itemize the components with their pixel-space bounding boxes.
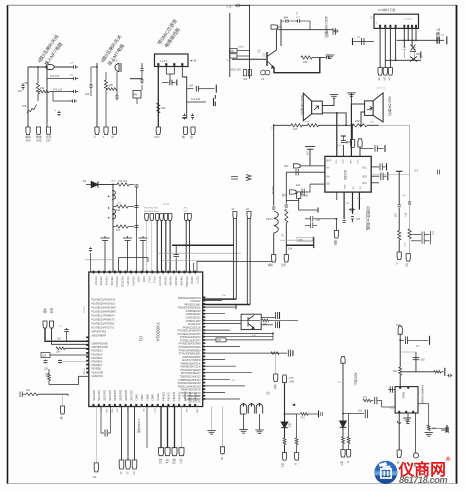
watermark logo ball bbox=[374, 461, 397, 484]
svg-text:COM2: COM2 bbox=[147, 393, 149, 400]
wire bbox=[65, 347, 89, 349]
svg-text:®: ® bbox=[446, 456, 451, 463]
connector J7 bbox=[156, 127, 160, 135]
svg-text:AIN: AIN bbox=[284, 165, 288, 168]
wire to J55 bbox=[352, 125, 354, 139]
ground bbox=[326, 55, 334, 59]
wire bbox=[241, 5, 250, 7]
capacitor C55 bbox=[135, 184, 139, 188]
connector J6 bbox=[112, 127, 116, 135]
diode D2 zener bbox=[410, 57, 417, 62]
wire bbox=[47, 78, 72, 80]
svg-text:P12/SEG19/AN3/CMP2: P12/SEG19/AN3/CMP2 bbox=[92, 307, 117, 310]
svg-text:地: 地 bbox=[60, 416, 63, 420]
wire P1-1 bbox=[379, 28, 381, 67]
wire bias bbox=[141, 63, 143, 66]
capacitor C44 bbox=[349, 208, 355, 211]
connector J3 bbox=[46, 127, 50, 135]
svg-text:1W: 1W bbox=[142, 409, 144, 412]
connector J51 bbox=[398, 326, 402, 334]
wire bbox=[399, 334, 401, 367]
svg-text:SPK: SPK bbox=[26, 139, 31, 143]
wire chain B bbox=[285, 200, 287, 203]
wire chain C bbox=[398, 171, 400, 204]
connector J43 bbox=[172, 448, 177, 456]
transistor Q1 bbox=[267, 50, 277, 68]
capacitor C26 bbox=[333, 28, 336, 35]
svg-text:P42/KS2: P42/KS2 bbox=[174, 391, 176, 401]
wire J32 stem b bbox=[235, 219, 237, 300]
wire bbox=[284, 445, 286, 453]
wire bbox=[27, 67, 29, 127]
capacitor C46 bbox=[285, 205, 288, 208]
svg-text:PWM2/KS8/T0CLK: PWM2/KS8/T0CLK bbox=[181, 363, 201, 365]
wire bbox=[50, 354, 89, 356]
svg-text:VDD/VCC33: VDD/VCC33 bbox=[188, 402, 201, 404]
svg-text:EAM8002VAV0: EAM8002VAV0 bbox=[421, 385, 425, 404]
svg-text:4Ω0.5W喇叭: 4Ω0.5W喇叭 bbox=[388, 96, 393, 117]
svg-text:104: 104 bbox=[346, 141, 351, 144]
connector J19 bbox=[297, 192, 301, 199]
IC U3 box bbox=[395, 387, 418, 413]
svg-text:P13/SEG18/AN4/CMP3: P13/SEG18/AN4/CMP3 bbox=[92, 311, 117, 314]
wire bbox=[174, 407, 176, 448]
svg-text:开关: 开关 bbox=[165, 459, 169, 465]
junction bbox=[112, 184, 114, 186]
svg-text:P74/SEG9/INT2/AN8: P74/SEG9/INT2/AN8 bbox=[179, 343, 202, 346]
svg-text:103: 103 bbox=[316, 219, 321, 222]
capacitor C76 bbox=[390, 386, 392, 392]
capacitor C28 gray bbox=[413, 48, 416, 59]
svg-text:8002: 8002 bbox=[402, 392, 406, 399]
wire gray net2 bbox=[162, 259, 234, 261]
IC U2 box bbox=[325, 156, 371, 192]
wire right pin8 bbox=[205, 319, 260, 321]
wire MCU top pin bbox=[151, 220, 153, 272]
junction bbox=[46, 66, 48, 68]
resistor R12 bbox=[408, 229, 411, 239]
wire bbox=[285, 223, 287, 255]
wire bbox=[129, 184, 134, 186]
wire thick net2 bbox=[286, 244, 313, 246]
svg-text:+: + bbox=[60, 325, 62, 329]
junction bbox=[345, 124, 347, 126]
svg-text:473: 473 bbox=[116, 229, 121, 232]
IC U1 top pin labels bbox=[94, 276, 198, 288]
wire bbox=[49, 384, 79, 386]
wire right pin28 bbox=[205, 385, 245, 387]
wire bbox=[166, 73, 174, 75]
wire U2 top pin1 bbox=[336, 113, 338, 156]
svg-text:P17/SEG14/INT1/TX1: P17/SEG14/INT1/TX1 bbox=[92, 328, 115, 330]
microphone MIC1 bbox=[115, 63, 121, 72]
svg-text:SEG0/P80: SEG0/P80 bbox=[94, 389, 96, 401]
svg-text:1S4: 1S4 bbox=[116, 209, 121, 212]
wire bbox=[141, 73, 143, 79]
wire right pin22 bbox=[205, 365, 236, 367]
svg-text:P64/SDA/AN3/SEG18: P64/SDA/AN3/SEG18 bbox=[178, 382, 202, 385]
resistor R19 bbox=[26, 393, 38, 396]
resistor R14 bbox=[116, 205, 128, 208]
connector J37 bbox=[94, 463, 98, 472]
svg-text:SEG7/P87: SEG7/P87 bbox=[131, 389, 133, 401]
wire right pin2 bbox=[205, 300, 222, 302]
inductor L3 bbox=[112, 191, 115, 200]
svg-text:P33/SEG1: P33/SEG1 bbox=[115, 276, 117, 288]
ground Q3 bbox=[239, 430, 247, 434]
wire bbox=[342, 137, 344, 141]
wire U2 bottom2 bbox=[352, 192, 354, 214]
terminal bar3 bbox=[446, 425, 448, 432]
wire bbox=[284, 383, 286, 423]
svg-text:104: 104 bbox=[288, 248, 293, 251]
svg-text:CMP1/P51/AN6: CMP1/P51/AN6 bbox=[92, 346, 109, 349]
wire bbox=[408, 339, 428, 341]
transistor Q4 bbox=[248, 404, 254, 414]
resistor R2 bbox=[40, 90, 49, 93]
capacitor C54b bbox=[411, 237, 431, 244]
wire bbox=[384, 175, 387, 177]
wire chain B up bbox=[285, 172, 287, 200]
svg-text:VO1: VO1 bbox=[362, 167, 367, 169]
svg-text:YX8201A: YX8201A bbox=[156, 322, 161, 342]
svg-text:三九九九: 三九九九 bbox=[403, 17, 413, 21]
capacitor C17 bbox=[235, 4, 241, 7]
wire thick MCU right1 bbox=[203, 298, 236, 300]
wire MCU top pin bbox=[165, 220, 167, 272]
wire bbox=[175, 246, 177, 254]
capacitor C67 bar bbox=[279, 312, 281, 319]
wire P1-2 bbox=[384, 28, 386, 67]
capacitor C47 bbox=[305, 216, 317, 222]
svg-text:861718.com: 861718.com bbox=[399, 475, 447, 485]
wire bbox=[348, 414, 350, 437]
svg-text:P77/KS5/PWM1/BZ1: P77/KS5/PWM1/BZ1 bbox=[179, 354, 201, 356]
wire bbox=[79, 375, 89, 377]
capacitor C15 bbox=[183, 114, 186, 120]
wire U2 VDD bbox=[371, 175, 379, 177]
wire bbox=[301, 20, 310, 22]
wire bbox=[286, 199, 298, 201]
svg-text:P10/SEG21/AN1/KS14: P10/SEG21/AN1/KS14 bbox=[92, 299, 116, 302]
wire right pin6 bbox=[205, 313, 225, 315]
capacitor C49 bar bbox=[313, 237, 315, 248]
wire bbox=[160, 407, 162, 448]
LED D4 bbox=[281, 422, 288, 428]
capacitor C18 box bbox=[230, 49, 238, 53]
capacitor C40 bar bbox=[387, 172, 389, 181]
svg-text:VDD: VDD bbox=[349, 160, 351, 165]
connector J42 bbox=[165, 448, 170, 456]
wire U3 out3 bbox=[415, 413, 417, 453]
wire vertical VCC bbox=[112, 185, 114, 273]
wire U6 pin4 bbox=[181, 66, 183, 77]
capacitor C5 bbox=[70, 99, 77, 102]
wire U6 pin4b bbox=[182, 77, 187, 118]
capacitor C61 bbox=[173, 254, 179, 258]
wire U6 pin3 bbox=[173, 66, 175, 74]
svg-text:P63/VLCD2/C1N: P63/VLCD2/C1N bbox=[183, 327, 201, 329]
wire gray net3 bbox=[85, 259, 113, 261]
connector J18 bbox=[284, 255, 288, 263]
junction dot bbox=[108, 196, 109, 197]
wire U6 pin2 bbox=[165, 66, 167, 74]
capacitor C57 bbox=[135, 225, 139, 229]
svg-text:IN-: IN- bbox=[327, 167, 330, 169]
resistor R5 bbox=[108, 88, 117, 91]
svg-text:P37/KS7: P37/KS7 bbox=[94, 276, 96, 286]
svg-text:10 11 12: 10 11 12 bbox=[377, 88, 386, 90]
capacitor C69 bbox=[105, 430, 107, 437]
wire SPK2 top bbox=[351, 103, 364, 105]
wire bbox=[272, 333, 274, 340]
svg-text:104 104: 104 104 bbox=[271, 186, 273, 195]
connector J27 bbox=[160, 214, 164, 221]
wire U3 out2 bbox=[407, 413, 409, 420]
svg-text:喇叭: 喇叭 bbox=[268, 263, 274, 267]
resistor R11 bbox=[398, 231, 401, 241]
svg-text:1/4W: 1/4W bbox=[289, 381, 295, 384]
wire bbox=[406, 413, 408, 418]
svg-text:VDD: VDD bbox=[396, 324, 401, 327]
svg-text:CMP0/P50/AN5: CMP0/P50/AN5 bbox=[92, 343, 109, 346]
LED D5 bbox=[340, 421, 347, 427]
capacitor C2 bbox=[21, 83, 24, 90]
wire bbox=[398, 208, 400, 231]
wire bbox=[281, 20, 284, 22]
svg-text:104: 104 bbox=[189, 85, 194, 88]
wire bbox=[296, 414, 298, 438]
resistor R9 bbox=[352, 124, 367, 127]
wire bbox=[127, 407, 129, 461]
wire bbox=[101, 407, 104, 434]
wire bus top pins bbox=[119, 257, 149, 259]
svg-text:电源: 电源 bbox=[43, 308, 47, 314]
transistor Q2 box bbox=[241, 314, 261, 329]
svg-text:VPP/RST/P02: VPP/RST/P02 bbox=[92, 332, 107, 334]
capacitor C21 pair bbox=[244, 70, 252, 76]
junction bbox=[407, 39, 409, 41]
wire bbox=[297, 413, 300, 415]
connector J35 bbox=[50, 321, 54, 328]
svg-text:RST: RST bbox=[153, 409, 155, 414]
svg-text:COM1/SEG21: COM1/SEG21 bbox=[186, 314, 202, 316]
connector J39 bbox=[126, 460, 131, 469]
wire bbox=[243, 414, 245, 430]
wire gray bbox=[222, 407, 224, 447]
svg-text:SD: SD bbox=[360, 186, 362, 189]
connector J45 bbox=[220, 447, 224, 454]
svg-text:P61/SEG1/AN1: P61/SEG1/AN1 bbox=[184, 303, 201, 306]
svg-text:K0: K0 bbox=[93, 475, 97, 479]
wire bbox=[398, 240, 400, 252]
wire bus AMP4 bbox=[379, 124, 410, 126]
wire bbox=[193, 263, 195, 272]
connector J47 bbox=[282, 453, 286, 461]
svg-text:VO1/DAC: VO1/DAC bbox=[190, 300, 201, 303]
wire U6 pin1 bbox=[157, 66, 159, 127]
svg-text:VDD: VDD bbox=[111, 181, 116, 183]
IC U1 bottom pin labels bbox=[94, 389, 198, 401]
resistor R6 bbox=[157, 103, 160, 113]
wire bbox=[400, 371, 434, 373]
wire P1-7 bbox=[411, 28, 413, 47]
transistor Q3 bbox=[240, 404, 246, 414]
wire bbox=[90, 67, 92, 82]
capacitor C73 gray bbox=[415, 352, 417, 372]
wire bbox=[309, 21, 311, 30]
capacitor C19 small bbox=[258, 49, 265, 57]
IC U1 left pin names2 bbox=[92, 343, 109, 378]
svg-text:静音: 静音 bbox=[282, 193, 288, 197]
svg-text:1uF 104: 1uF 104 bbox=[50, 75, 60, 78]
wire bbox=[67, 394, 69, 396]
wire gray bbox=[400, 351, 416, 353]
capacitor C83 small bbox=[321, 412, 323, 416]
crystal X3 bbox=[246, 175, 251, 181]
svg-text:SD: SD bbox=[327, 184, 331, 186]
resistor R20 bbox=[262, 319, 269, 321]
svg-text:VS: VS bbox=[377, 77, 381, 81]
connector J10 bbox=[271, 25, 278, 29]
svg-text:P76/KS4/PWM0/BZ0: P76/KS4/PWM0/BZ0 bbox=[179, 350, 201, 352]
wire gray to J54 bbox=[275, 353, 277, 374]
svg-text:T1/BZB/SEG15/KS13: T1/BZB/SEG15/KS13 bbox=[178, 380, 201, 382]
svg-text:104: 104 bbox=[85, 92, 90, 96]
capacitor C34 bbox=[341, 140, 346, 143]
resistor R3 diagonal bbox=[27, 105, 37, 114]
wire SPK1 top bbox=[322, 99, 334, 106]
IC U1 bottom-right inside labels bbox=[188, 395, 201, 404]
wire bbox=[296, 184, 310, 192]
capacitor C32 bar bbox=[352, 38, 354, 45]
capacitor C24 bbox=[296, 19, 301, 22]
svg-text:3.3: 3.3 bbox=[414, 169, 418, 173]
svg-text:330: 330 bbox=[161, 106, 166, 110]
wire bbox=[237, 55, 250, 57]
wire chain D bbox=[409, 125, 411, 201]
capacitor C68 bar bbox=[279, 321, 281, 328]
capacitor C34 bar bbox=[341, 135, 346, 137]
border frame bottom bbox=[8, 483, 457, 485]
wire bbox=[400, 339, 404, 341]
terminal bar bbox=[317, 208, 319, 213]
svg-text:NC: NC bbox=[353, 186, 355, 190]
connector J5 bbox=[104, 127, 108, 135]
junction bbox=[66, 340, 68, 342]
connector J29 bbox=[168, 214, 172, 221]
wire bbox=[106, 88, 108, 90]
junction bbox=[284, 413, 286, 415]
wire gray net1 bbox=[157, 252, 241, 254]
capacitor C4 bbox=[71, 90, 78, 93]
capacitor C31 bar bbox=[446, 36, 448, 44]
connector J32 bbox=[233, 212, 237, 219]
svg-text:P54/SEG5: P54/SEG5 bbox=[92, 358, 104, 360]
svg-text:SEG2/P82: SEG2/P82 bbox=[105, 389, 107, 401]
junction bbox=[411, 39, 413, 41]
svg-text:P36/KS6: P36/KS6 bbox=[99, 276, 101, 286]
transistor Q5 bbox=[256, 404, 262, 414]
svg-text:BO0 BO1 SEG: BO0 BO1 SEG bbox=[144, 211, 159, 213]
capacitor C10 bbox=[140, 78, 143, 84]
capacitor C38 bbox=[302, 189, 304, 196]
component Y1 box bbox=[41, 353, 50, 358]
resistor R25 bbox=[342, 437, 345, 444]
inductor L4 bbox=[112, 209, 116, 219]
wire bbox=[66, 333, 68, 341]
wire bbox=[199, 88, 215, 90]
wire Q5 bbox=[259, 403, 261, 407]
resistor R17 bbox=[48, 374, 51, 381]
wire bbox=[105, 90, 107, 127]
wire bbox=[172, 82, 175, 84]
wire bbox=[259, 414, 261, 430]
svg-text:P31/INT1: P31/INT1 bbox=[126, 276, 128, 286]
svg-text:VLCD1/C1P: VLCD1/C1P bbox=[188, 324, 201, 326]
svg-text:P70/SEG13/KS0/INT0: P70/SEG13/KS0/INT0 bbox=[177, 331, 201, 333]
connector J54 bbox=[274, 374, 278, 382]
svg-text:VSS5: VSS5 bbox=[142, 276, 144, 283]
IC U1 left pins bbox=[86, 336, 89, 373]
wire bus AMP2 bbox=[319, 124, 353, 126]
wire bbox=[261, 317, 275, 319]
svg-text:COM1: COM1 bbox=[142, 393, 144, 400]
svg-text:VDD1/VCC: VDD1/VCC bbox=[92, 376, 104, 378]
capacitor C48 bbox=[305, 223, 317, 229]
IC U1 below-edge pin labels bbox=[100, 409, 198, 414]
border frame right bbox=[456, 5, 458, 484]
wire bbox=[53, 100, 71, 102]
junction bbox=[415, 39, 417, 41]
svg-text:VLCD2: VLCD2 bbox=[158, 393, 160, 401]
wire gray net bbox=[371, 173, 409, 175]
connector J50b bbox=[341, 357, 345, 364]
wire bbox=[362, 400, 363, 402]
connector J49 bbox=[341, 450, 345, 458]
wire J33 stem b bbox=[249, 219, 251, 305]
wire crystal left rail bbox=[229, 13, 231, 77]
wire bus AMP bbox=[274, 124, 291, 126]
svg-text:4Ω0.5W喇叭: 4Ω0.5W喇叭 bbox=[300, 95, 305, 116]
svg-text:LED: LED bbox=[116, 409, 118, 414]
capacitor C35 bar bbox=[384, 145, 386, 152]
capacitor C14 bbox=[214, 95, 216, 106]
svg-text:RST/VPP: RST/VPP bbox=[158, 276, 160, 286]
inductor L2 bbox=[274, 211, 279, 233]
wire right pin4 bbox=[205, 306, 235, 308]
wire bbox=[169, 74, 171, 83]
svg-text:P26/AN6: P26/AN6 bbox=[169, 276, 172, 286]
wire U2 IN- bbox=[300, 165, 325, 167]
IC U1 right pin names bbox=[177, 297, 201, 402]
svg-text:P55/SEG6: P55/SEG6 bbox=[92, 362, 104, 364]
capacitor C41 bbox=[438, 170, 440, 175]
connector J52 bbox=[397, 450, 401, 458]
svg-text:10mH: 10mH bbox=[266, 218, 273, 221]
wire MCU top pin bbox=[169, 220, 171, 272]
capacitor C39 bbox=[380, 163, 382, 170]
terminal TP1 circle bbox=[413, 453, 418, 458]
wire bbox=[52, 92, 54, 102]
connector J14 bbox=[358, 139, 362, 147]
wire bbox=[277, 29, 282, 31]
wire bbox=[278, 26, 282, 28]
border frame left bbox=[7, 5, 9, 484]
capacitor C82 bar bbox=[292, 350, 294, 356]
svg-text:P16/SEG15/INT0/RX1: P16/SEG15/INT0/RX1 bbox=[92, 324, 116, 326]
wire bbox=[428, 404, 430, 425]
